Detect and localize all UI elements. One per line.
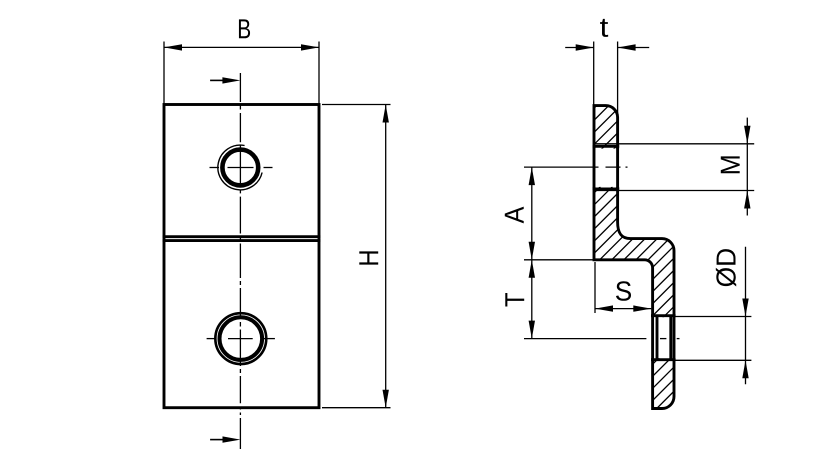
threaded hole M front view circle xyxy=(222,150,258,186)
label B xyxy=(239,19,250,38)
label H xyxy=(359,251,378,264)
label D xyxy=(716,249,736,286)
vertical centerline front view xyxy=(239,73,241,449)
hole D section: edge lines xyxy=(651,315,676,362)
label A xyxy=(505,207,524,224)
threaded hole M section: white gap xyxy=(593,149,620,187)
dimension D xyxy=(742,247,748,385)
hole D front view outer circle xyxy=(215,313,266,364)
centerline upper hole side view xyxy=(524,166,628,168)
dimension M xyxy=(744,118,750,216)
dimension B xyxy=(164,42,319,106)
label t xyxy=(600,19,608,37)
label M xyxy=(721,156,740,173)
thread major-diameter arc xyxy=(218,145,262,190)
step bottom extension line xyxy=(524,259,593,261)
step edge lines front view xyxy=(163,237,321,241)
thread major diameter lines / M extension lines xyxy=(595,144,755,191)
hatching xyxy=(282,90,827,420)
dimension S xyxy=(595,305,651,311)
section arrow bottom xyxy=(210,436,240,442)
label S xyxy=(616,281,631,300)
hole D extension lines xyxy=(675,317,751,361)
hole D section: white gap xyxy=(651,317,676,358)
centerline lower hole side view xyxy=(524,338,680,340)
hole D front view inner circle xyxy=(220,317,263,360)
crosshair centerline upper hole xyxy=(210,167,273,169)
Z-profile outline xyxy=(594,106,674,409)
threaded hole M section: minor diameter lines xyxy=(593,145,619,190)
dimension t extension lines xyxy=(594,42,618,118)
label T xyxy=(505,293,524,307)
dimension H xyxy=(322,105,391,408)
dimension A xyxy=(529,167,535,260)
plate outline front view xyxy=(164,105,319,408)
crosshair centerline lower hole xyxy=(207,338,275,340)
dimension t xyxy=(565,44,649,50)
dimension T xyxy=(529,260,535,339)
section arrow top xyxy=(210,77,240,83)
dimension S extension line xyxy=(594,262,596,313)
